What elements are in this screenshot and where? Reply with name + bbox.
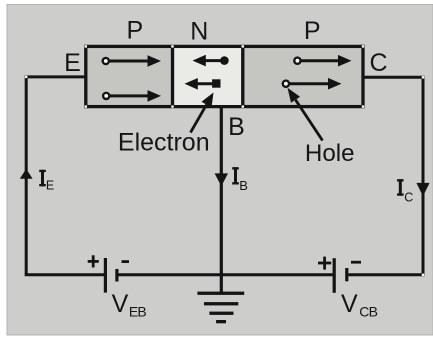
label - (VEB) xyxy=(122,260,130,263)
wire corner dot E xyxy=(25,76,27,78)
label VEB xyxy=(112,290,147,320)
svg-text:CB: CB xyxy=(359,303,377,319)
junction divider B-C xyxy=(241,46,244,106)
current arrow IE (up) xyxy=(20,169,33,179)
wire bottom right (battery VCB to right rail) xyxy=(349,273,425,276)
svg-text:N: N xyxy=(190,17,208,45)
label + (VEB) xyxy=(88,255,99,267)
wire corner dot bottom-left xyxy=(25,274,27,276)
label IB xyxy=(232,167,248,193)
wire bottom center (battery VEB to battery VCB) xyxy=(119,273,333,276)
wire bottom left to battery VEB xyxy=(25,273,104,276)
label VCB xyxy=(341,290,378,319)
wire base vertical xyxy=(220,107,223,294)
hole arrow 1 in collector xyxy=(294,55,351,67)
svg-text:C: C xyxy=(404,191,413,205)
wire right rail vertical and C terminal xyxy=(362,77,423,274)
ground xyxy=(197,292,244,324)
pointer arrow Electron xyxy=(191,93,214,133)
label - (VCB) xyxy=(351,261,361,264)
current arrow IB (down) xyxy=(215,173,228,186)
hole arrow 1 in emitter xyxy=(103,55,161,67)
corner handle dots xyxy=(85,45,365,108)
electron arrow 1 in base xyxy=(193,55,229,67)
pointer arrow Hole xyxy=(288,88,323,141)
battery VCB plates xyxy=(333,258,349,293)
svg-text:P: P xyxy=(304,17,321,45)
svg-text:EB: EB xyxy=(129,304,147,320)
svg-text:B: B xyxy=(228,113,245,141)
svg-text:E: E xyxy=(46,178,54,192)
svg-text:B: B xyxy=(239,178,248,193)
hole arrow 2 in emitter xyxy=(103,90,161,102)
base region N (middle, lighter) xyxy=(174,48,241,105)
svg-text:V: V xyxy=(112,290,129,318)
battery VEB plates xyxy=(104,258,119,293)
svg-text:V: V xyxy=(341,290,358,318)
svg-text:C: C xyxy=(369,49,387,77)
label IC xyxy=(397,179,413,204)
svg-text:Hole: Hole xyxy=(305,140,355,167)
electron arrow 2 in base xyxy=(185,78,221,90)
junction divider E-B xyxy=(171,46,174,106)
hole arrow 2 in collector xyxy=(283,78,342,90)
emitter region P (left) xyxy=(86,46,363,106)
svg-text:P: P xyxy=(126,17,143,45)
svg-text:E: E xyxy=(64,49,81,77)
wire corner dot C xyxy=(422,76,424,78)
label IE xyxy=(39,170,54,193)
svg-text:Electron: Electron xyxy=(118,129,210,157)
current arrow IC (down) xyxy=(416,183,429,196)
label + (VCB) xyxy=(318,257,331,270)
wire corner dot bottom-right xyxy=(422,274,424,276)
wire E terminal to left rail and down xyxy=(26,77,85,275)
